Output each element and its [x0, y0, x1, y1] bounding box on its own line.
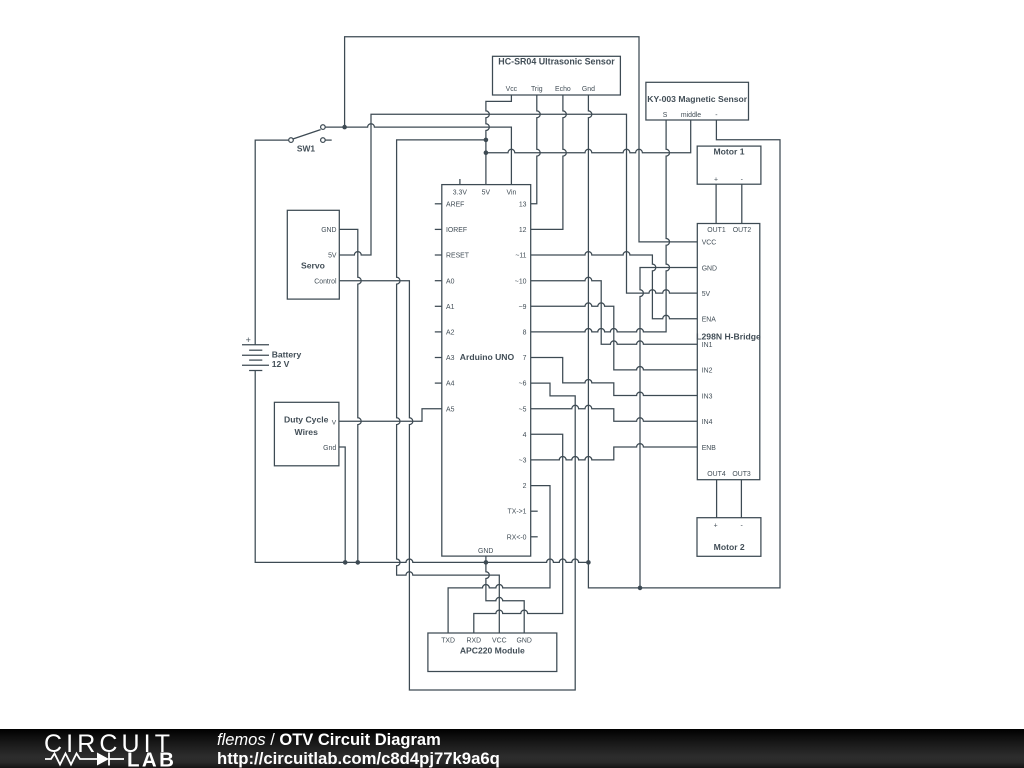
junction duty gnd on bus	[343, 560, 348, 565]
svg-text:A5: A5	[446, 406, 455, 413]
wire Duty Cycle Gnd to ground bus	[339, 447, 345, 562]
pin label TX1	[508, 509, 527, 516]
pin label minus KY	[715, 112, 717, 119]
svg-text:GND: GND	[478, 548, 493, 555]
label Wires	[295, 427, 319, 437]
svg-text:OUT3: OUT3	[732, 471, 751, 478]
label Motor 2	[714, 542, 745, 552]
junction 5V/KY tap	[484, 150, 489, 155]
wire Arduino A4 stub	[435, 382, 442, 384]
label HC-SR04 title	[498, 57, 615, 67]
pin label OUT4	[707, 471, 726, 478]
wire Arduino A0 stub	[435, 280, 442, 282]
svg-text:2: 2	[523, 483, 527, 490]
label Arduino UNO	[460, 352, 515, 362]
wire Arduino pin ~10 to L298N IN1	[531, 277, 698, 344]
junction 5V/APC tap	[484, 138, 489, 143]
label Motor 1	[713, 146, 744, 156]
wire Arduino pin 2 to APC220 TXD	[448, 486, 550, 633]
svg-text:L298N H-Bridge: L298N H-Bridge	[696, 332, 761, 342]
wire 5V node to APC220 VCC	[397, 140, 500, 633]
pin label ~10	[515, 278, 527, 285]
label APC220 Module	[460, 645, 525, 655]
pin label middle	[681, 112, 701, 119]
wire Motor 1 + to OUT1	[715, 184, 717, 223]
wire Arduino pin ~9 to L298N IN2	[531, 303, 698, 370]
svg-text:-: -	[740, 523, 742, 530]
svg-text:LAB: LAB	[127, 749, 176, 768]
switch SW1	[289, 125, 332, 143]
pin label 12	[519, 227, 527, 234]
svg-text:GND: GND	[321, 227, 336, 234]
svg-text:7: 7	[523, 355, 527, 362]
footer banner	[0, 729, 1024, 768]
wire Arduino 3.3V stub	[459, 179, 461, 185]
Arduino UNO box	[442, 185, 531, 556]
junction arduino gnd on bus	[484, 560, 489, 565]
svg-text:Arduino UNO: Arduino UNO	[460, 352, 515, 362]
svg-text:V: V	[332, 420, 337, 427]
svg-text:-: -	[741, 177, 743, 184]
KY-003 Magnetic Sensor box	[646, 82, 749, 120]
svg-text:IN2: IN2	[702, 368, 713, 375]
wire Arduino pin 8 to KY-003 S	[531, 120, 670, 332]
Servo box	[287, 210, 339, 299]
svg-text:5V: 5V	[328, 253, 337, 260]
pin label VCC l298n	[702, 240, 717, 247]
svg-text:middle: middle	[681, 112, 701, 119]
junction l298n gnd on rail	[638, 586, 643, 591]
pin label 2	[523, 483, 527, 490]
Motor 2 box	[697, 518, 761, 557]
svg-text:Vcc: Vcc	[506, 86, 518, 93]
pin label Echo	[555, 86, 571, 93]
svg-text:GND: GND	[702, 265, 717, 272]
pin label 5V l298n	[702, 291, 711, 298]
pin label Motor1 +	[714, 177, 718, 184]
wire HC-SR04 Vcc to Arduino 5V	[486, 95, 512, 185]
label battery +	[246, 335, 251, 345]
pin label V duty	[332, 420, 337, 427]
pin label IN2	[702, 368, 713, 375]
svg-text:13: 13	[519, 201, 527, 208]
pin label ~9	[519, 304, 527, 311]
svg-text:8: 8	[523, 330, 527, 337]
pin label RX0	[507, 534, 527, 541]
battery B1 12V	[242, 345, 269, 371]
pin label AREF	[446, 201, 464, 208]
pin label IN4	[702, 419, 713, 426]
pin label Gnd duty	[323, 445, 336, 452]
wire Arduino RX-0 stub	[531, 536, 538, 538]
pin label Vcc	[506, 86, 518, 93]
wire HC-SR04 Trig to Arduino pin 13	[531, 95, 541, 204]
svg-text:Gnd: Gnd	[582, 86, 595, 93]
pin label 5V arduino	[482, 190, 491, 197]
wire switch throw to Arduino Vin	[325, 124, 511, 185]
wire Servo GND to ground bus	[339, 229, 361, 562]
svg-text:RESET: RESET	[446, 253, 470, 260]
svg-text:IN4: IN4	[702, 419, 713, 426]
wire Motor 2 + to OUT4	[716, 480, 718, 518]
junction servo gnd on bus	[356, 560, 361, 565]
pin label GND arduino	[478, 548, 493, 555]
svg-text:+: +	[714, 177, 718, 184]
wire Servo Control to Arduino ~6	[339, 281, 575, 690]
junction hc gnd on bus	[586, 560, 591, 565]
wire Motor 2 - to OUT3	[740, 480, 742, 518]
svg-text:+: +	[246, 335, 251, 345]
svg-text:~3: ~3	[519, 458, 527, 465]
svg-text:APC220 Module: APC220 Module	[460, 645, 525, 655]
wire Arduino pin ~11 to L298N ENA	[531, 252, 698, 319]
pin label TXD	[441, 638, 455, 645]
pin label Vin	[506, 190, 516, 197]
pin label 3.3V	[453, 190, 468, 197]
APC220 Module box	[428, 633, 557, 672]
svg-text:IN1: IN1	[702, 342, 713, 349]
svg-text:IOREF: IOREF	[446, 227, 467, 234]
pin label OUT1	[707, 227, 726, 234]
wire Arduino A3 stub	[435, 357, 442, 359]
pin label ENB	[702, 445, 717, 452]
svg-text:5V: 5V	[702, 291, 711, 298]
pin label A2	[446, 330, 455, 337]
wire Arduino pin 4 to APC220 RXD	[474, 434, 563, 633]
svg-text:~6: ~6	[519, 381, 527, 388]
pin label Motor1 -	[741, 177, 743, 184]
svg-text:OUT4: OUT4	[707, 471, 726, 478]
pin label IN1	[702, 342, 713, 349]
pin label A1	[446, 304, 455, 311]
svg-text:GND: GND	[517, 638, 532, 645]
svg-text:A4: A4	[446, 381, 455, 388]
pin label Trig	[531, 86, 543, 93]
wire Arduino TX-1 stub	[531, 510, 538, 512]
pin label 5V servo	[328, 253, 337, 260]
wire 5V node to KY-003 middle pin	[486, 120, 691, 153]
pin label ~11	[515, 253, 526, 260]
pin label IOREF	[446, 227, 467, 234]
wire ground net: HC-SR04 Gnd, ground rail, KY-003 -	[588, 95, 780, 588]
svg-text:12 V: 12 V	[272, 359, 290, 369]
wire Duty Cycle V to Arduino A5	[339, 409, 442, 422]
label L298N title	[696, 332, 761, 342]
svg-text:ENB: ENB	[702, 445, 717, 452]
svg-text:KY-003 Magnetic Sensor: KY-003 Magnetic Sensor	[647, 94, 747, 104]
pin label Motor2 +	[714, 523, 718, 530]
pin label S	[663, 112, 668, 119]
pin label VCC apc	[492, 638, 507, 645]
svg-text:~10: ~10	[515, 278, 527, 285]
svg-text:Gnd: Gnd	[323, 445, 336, 452]
pin label Gnd	[582, 86, 595, 93]
wire Arduino RESET stub	[435, 254, 442, 256]
CircuitLab logo	[44, 730, 176, 768]
wire top bus: switch node to L298N VCC	[345, 37, 698, 242]
pin label ~3	[519, 458, 527, 465]
svg-text:VCC: VCC	[492, 638, 507, 645]
label KY-003 title	[647, 94, 747, 104]
pin label Control	[314, 278, 337, 285]
svg-text:A2: A2	[446, 330, 455, 337]
wire Arduino GND to APC220 GND	[486, 556, 524, 633]
svg-text:ENA: ENA	[702, 317, 717, 324]
wire battery + to SW1 pole	[255, 140, 288, 345]
pin label GND servo	[321, 227, 336, 234]
pin label GND apc	[517, 638, 532, 645]
svg-text:A3: A3	[446, 355, 455, 362]
label Servo	[301, 260, 325, 270]
label Duty Cycle	[284, 415, 329, 425]
svg-text:flemos / OTV Circuit Diagram: flemos / OTV Circuit Diagram	[217, 731, 441, 749]
junction switch node	[342, 125, 347, 130]
Duty Cycle Wires box	[274, 402, 339, 466]
pin label A5	[446, 406, 455, 413]
svg-text:Servo: Servo	[301, 260, 325, 270]
wire Arduino A1 stub	[435, 305, 442, 307]
svg-text:HC-SR04 Ultrasonic Sensor: HC-SR04 Ultrasonic Sensor	[498, 57, 615, 67]
svg-text:+: +	[714, 523, 718, 530]
wire Arduino pin 7 to L298N IN3	[531, 358, 698, 396]
svg-text:~9: ~9	[519, 304, 527, 311]
Motor 1 box	[697, 146, 761, 184]
pin label IN3	[702, 393, 713, 400]
wire HC-SR04 Echo to Arduino pin 12	[531, 95, 567, 229]
svg-text:~5: ~5	[519, 406, 527, 413]
svg-text:IN3: IN3	[702, 393, 713, 400]
wire Motor 1 - to OUT2	[741, 184, 743, 223]
svg-text:S: S	[663, 112, 668, 119]
svg-text:TX->1: TX->1	[508, 509, 527, 516]
pin label A4	[446, 381, 455, 388]
pin label GND l298n	[702, 265, 717, 272]
svg-text:OUT2: OUT2	[733, 227, 752, 234]
svg-text:OUT1: OUT1	[707, 227, 726, 234]
wire Arduino AREF stub	[435, 203, 442, 205]
svg-text:RXD: RXD	[467, 638, 482, 645]
svg-text:VCC: VCC	[702, 240, 717, 247]
pin label RESET	[446, 253, 470, 260]
svg-text:A0: A0	[446, 278, 455, 285]
svg-text:AREF: AREF	[446, 201, 464, 208]
svg-text:A1: A1	[446, 304, 455, 311]
footer title text	[217, 731, 500, 768]
svg-text:Duty Cycle: Duty Cycle	[284, 415, 329, 425]
wire Arduino IOREF stub	[435, 228, 442, 230]
pin label ~5	[519, 406, 527, 413]
svg-text:SW1: SW1	[297, 144, 315, 154]
pin label 4	[523, 432, 527, 439]
pin label 7	[523, 355, 527, 362]
svg-text:Motor 2: Motor 2	[714, 542, 745, 552]
wire L298N GND to ground rail	[640, 268, 697, 588]
svg-text:~11: ~11	[515, 253, 526, 260]
pin label ~6	[519, 381, 527, 388]
wire battery - to ground bus	[255, 371, 588, 563]
svg-text:-: -	[715, 112, 717, 119]
pin label Motor2 -	[740, 523, 742, 530]
svg-text:http://circuitlab.com/c8d4pj77: http://circuitlab.com/c8d4pj77k9a6q	[217, 749, 500, 768]
label 12 V	[272, 359, 290, 369]
svg-text:Wires: Wires	[295, 427, 319, 437]
svg-text:TXD: TXD	[441, 638, 455, 645]
svg-text:Echo: Echo	[555, 86, 571, 93]
svg-text:3.3V: 3.3V	[453, 190, 468, 197]
pin label OUT3	[732, 471, 751, 478]
label Battery	[272, 350, 302, 360]
svg-text:5V: 5V	[482, 190, 491, 197]
HC-SR04 Ultrasonic Sensor box	[493, 56, 621, 95]
label SW1	[297, 144, 315, 154]
pin label A3	[446, 355, 455, 362]
wire Servo 5V to L298N 5V	[339, 114, 697, 293]
svg-text:Motor 1: Motor 1	[713, 146, 744, 156]
pin label OUT2	[733, 227, 752, 234]
svg-text:4: 4	[523, 432, 527, 439]
pin label ENA	[702, 317, 717, 324]
L298N H-Bridge box	[697, 224, 760, 480]
pin label 8	[523, 330, 527, 337]
svg-text:Vin: Vin	[506, 190, 516, 197]
wire Arduino pin ~3 to L298N ENB	[531, 444, 698, 460]
pin label A0	[446, 278, 455, 285]
svg-text:Trig: Trig	[531, 86, 543, 93]
svg-text:RX<-0: RX<-0	[507, 534, 527, 541]
pin label RXD	[467, 638, 482, 645]
pin label 13	[519, 201, 527, 208]
svg-text:12: 12	[519, 227, 527, 234]
svg-text:Control: Control	[314, 278, 337, 285]
wire Arduino A2 stub	[435, 331, 442, 333]
wire Arduino pin ~5 to L298N IN4	[531, 405, 698, 421]
